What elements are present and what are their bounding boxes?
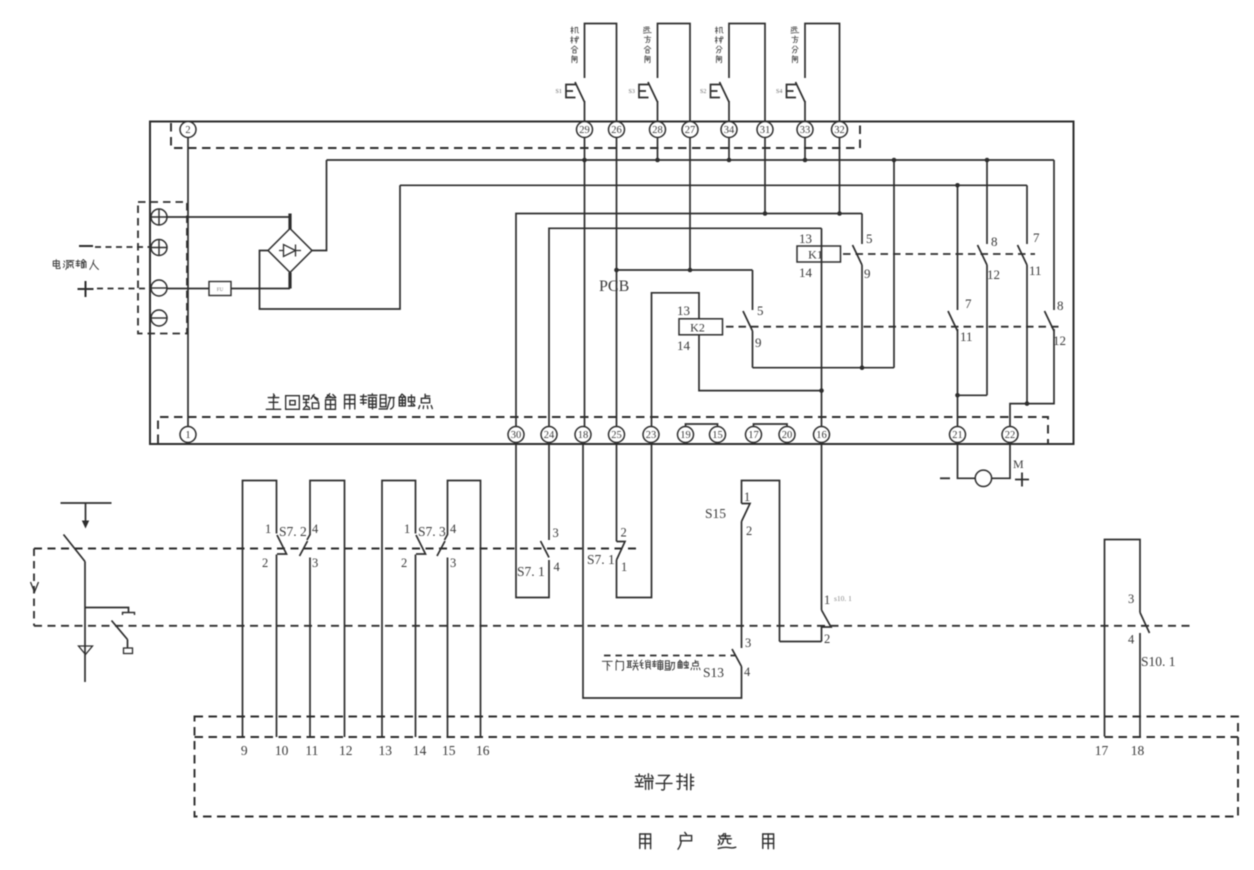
power terminal P2 <box>151 240 167 256</box>
junction bus160 x584.5 <box>582 158 587 163</box>
svg-text:PCB: PCB <box>599 278 629 295</box>
wire PB3 contact to terminal <box>728 101 730 122</box>
junction K1/K2 pin14 (821.5,390.6) <box>819 388 824 393</box>
push-button PB1 actuator <box>566 85 576 98</box>
relay coil K1 <box>797 246 841 262</box>
svg-text:16: 16 <box>476 743 490 758</box>
svg-text:S1: S1 <box>556 89 562 95</box>
label 主回路备用辅助触点 <box>266 394 432 410</box>
svg-text:3: 3 <box>553 526 559 540</box>
wire rectifier - output to bus <box>260 185 401 309</box>
svg-text:30: 30 <box>511 430 522 441</box>
junction bus270 x690 <box>688 268 693 273</box>
wire PB4 contact to terminal <box>804 101 806 122</box>
svg-text:25: 25 <box>611 430 622 441</box>
terminal 33 (top row) <box>797 122 813 138</box>
svg-text:9: 9 <box>241 743 248 758</box>
terminal 26 (top row) <box>609 122 625 138</box>
power terminal P1 <box>151 209 167 225</box>
power input dashed box <box>138 202 187 334</box>
auxiliary contact 7-11 arm (K1 row) <box>1018 245 1028 265</box>
svg-text:31: 31 <box>760 125 771 136</box>
svg-text:14: 14 <box>799 265 813 280</box>
wire rectifier + output to bus <box>312 160 327 251</box>
terminal strip inner dashed line <box>195 736 1239 738</box>
label 远方分闸 of PB4 <box>791 27 799 63</box>
switch S10.1 contact arm (3-4) <box>1140 613 1150 634</box>
svg-text:1: 1 <box>744 490 750 504</box>
label 远方合闸 of PB2 <box>644 27 652 63</box>
wire bus K2 drive y270 <box>617 269 753 271</box>
svg-text:14: 14 <box>677 338 691 353</box>
push-button PB1 contact arm <box>575 82 585 102</box>
terminal 24 (bottom row) <box>541 427 557 443</box>
svg-text:19: 19 <box>680 430 691 441</box>
svg-text:21: 21 <box>952 430 963 441</box>
rectifier AC lead bottom (bold) <box>288 273 291 289</box>
U-loop of S15 <box>742 481 780 642</box>
wire bar to arrow <box>85 503 87 521</box>
terminal 22 (bottom row) <box>1002 427 1018 443</box>
push-button unit PB1 frame wire <box>585 24 617 122</box>
label 端子排 <box>635 774 693 790</box>
svg-text:18: 18 <box>1131 743 1145 758</box>
svg-text:s10. 1: s10. 1 <box>834 594 852 603</box>
wire P1 to rectifier <box>167 216 290 218</box>
wire K2 switch 9 down to rail368 <box>752 331 754 368</box>
switch S7.3 pole A arm <box>416 535 426 554</box>
arrowhead (left assembly top) <box>82 521 89 529</box>
wire bus K1 coil feed y228 (from terminal 24) <box>549 228 822 426</box>
svg-text:3: 3 <box>450 556 456 570</box>
label 机械合闸 of PB1 <box>571 27 579 63</box>
wire PB1 contact to terminal <box>584 101 586 122</box>
U-loop terminals 9-10 <box>243 481 277 738</box>
power terminal P3 <box>151 280 167 296</box>
wire terminal 29 to terminal 18 (x584.5) <box>584 138 586 427</box>
svg-text:S7. 1: S7. 1 <box>517 564 545 579</box>
svg-text:27: 27 <box>685 125 696 136</box>
aux contact block (left assembly) <box>124 648 133 654</box>
U-loop terminals 15-16 <box>445 481 481 738</box>
junction x957.5 y395.3 <box>955 393 960 398</box>
switch S7.1 no.1 arm (3-4) <box>541 541 550 558</box>
svg-text:M: M <box>1013 457 1024 471</box>
wire contact 11 down (x1027) <box>1026 265 1028 404</box>
push-button PB4 actuator <box>787 85 797 98</box>
svg-text:11: 11 <box>305 743 318 758</box>
wire K2 coil top hook to terminal 23 <box>652 293 700 427</box>
bridge link terminals 19-15 <box>686 424 718 427</box>
svg-text:1: 1 <box>265 522 271 536</box>
push-button PB3 contact arm <box>720 82 730 102</box>
wire S7.2 pole A lower <box>276 555 278 738</box>
terminal 18 (bottom row) <box>575 427 591 443</box>
push-button unit PB4 frame wire <box>805 24 840 122</box>
terminal 23 (bottom row) <box>643 427 659 443</box>
svg-text:20: 20 <box>782 430 793 441</box>
wire terminal 16 down to s10.1 <box>821 443 823 611</box>
label 下门联锁辅助触点 <box>602 660 700 670</box>
minus symbol at motor <box>940 477 950 479</box>
wire S13 pin4 to terminal 18 <box>583 443 742 699</box>
svg-text:11: 11 <box>960 329 973 344</box>
svg-text:18: 18 <box>578 430 589 441</box>
junction bus160 x805 <box>803 158 808 163</box>
push-button unit PB2 frame wire <box>658 24 691 122</box>
svg-text:17: 17 <box>1095 743 1109 758</box>
inner dashed boundary top-left <box>171 123 860 148</box>
wire terminal 32 to bus213 <box>839 138 841 214</box>
push-button PB2 actuator <box>639 85 649 98</box>
svg-text:24: 24 <box>544 430 555 441</box>
svg-text:3: 3 <box>312 556 318 570</box>
terminal 27 (top row) <box>682 122 698 138</box>
svg-text:12: 12 <box>1053 333 1066 348</box>
wire bus160 down to contact 8 (x987) <box>986 160 988 244</box>
junction bus213 x765 <box>763 211 768 216</box>
svg-text:22: 22 <box>1005 430 1016 441</box>
terminal 31 (top row) <box>757 122 773 138</box>
terminal 29 (top row) <box>577 122 593 138</box>
svg-text:8: 8 <box>1057 298 1064 313</box>
motor M <box>975 470 991 486</box>
svg-text:S3: S3 <box>629 89 635 95</box>
junction bus270 x616.5 <box>614 268 619 273</box>
relay coil K2 <box>679 319 723 335</box>
svg-text:33: 33 <box>800 125 811 136</box>
switch S7.3 pole B arm <box>437 541 445 556</box>
svg-text:29: 29 <box>579 125 590 136</box>
junction bus160 x987 <box>985 158 990 163</box>
svg-text:1: 1 <box>404 522 410 536</box>
svg-text:S10. 1: S10. 1 <box>1141 654 1176 669</box>
svg-text:K1: K1 <box>808 248 823 262</box>
svg-text:2: 2 <box>746 524 752 538</box>
terminal 25 (bottom row) <box>609 427 625 443</box>
wire K1 coil vertical to terminal 16 <box>821 228 823 426</box>
dashed linkage bus upper y548.5 <box>34 548 637 550</box>
svg-text:S7. 2: S7. 2 <box>279 524 307 539</box>
svg-text:23: 23 <box>646 430 657 441</box>
push-button PB2 contact arm <box>648 82 658 102</box>
svg-text:34: 34 <box>724 125 735 136</box>
wire terminal 26 to terminal 25 (x616.5) <box>616 138 618 427</box>
svg-text:8: 8 <box>991 234 998 249</box>
svg-text:2: 2 <box>185 125 190 136</box>
wire bus160 to rail368 (x894) <box>893 160 895 368</box>
svg-text:S4: S4 <box>776 89 782 95</box>
junction rail368 x862 <box>860 365 865 370</box>
power terminal P4 <box>151 310 167 326</box>
wire aux branch (left assembly) <box>85 608 129 613</box>
U-loop terminals 11-12 <box>307 481 345 738</box>
label 机械分闸 of PB3 <box>715 27 723 63</box>
svg-text:S7. 3: S7. 3 <box>418 524 446 539</box>
dashed linkage bus lower y625.8 <box>34 625 1192 627</box>
wire bus185 down to contact 7 (x957.5) <box>957 185 959 310</box>
wire terminal 21 to motor <box>958 443 976 479</box>
wire terminal 31 to bus213 <box>764 138 766 214</box>
K2 start switch arm (5-9) <box>743 311 753 331</box>
dashed actuator line of K1 <box>843 253 1035 255</box>
svg-text:1: 1 <box>185 430 190 441</box>
junction bus185 x957.5 <box>955 183 960 188</box>
wire terminal 33 to bus160 <box>804 138 806 161</box>
svg-text:4: 4 <box>744 665 751 679</box>
earthing switch QS arm <box>64 535 86 562</box>
terminal 21 (bottom row) <box>950 427 966 443</box>
switch S7.2 pole B arm <box>300 541 308 556</box>
svg-text:16: 16 <box>816 430 827 441</box>
wire S7.3 pole A lower <box>415 555 417 738</box>
terminal 20 (bottom row) <box>779 427 795 443</box>
dashed linkage of S13 <box>604 655 735 657</box>
terminal strip dashed box <box>195 717 1239 817</box>
svg-text:2: 2 <box>262 556 268 570</box>
wire terminal 2 to terminal 1 <box>187 138 189 427</box>
wire terminal 25 down to contact <box>616 443 618 542</box>
dashed linkage vertical (left) <box>33 549 35 626</box>
wire S15 to s10.1 link <box>780 641 822 643</box>
svg-text:28: 28 <box>652 125 663 136</box>
svg-text:K2: K2 <box>690 320 705 334</box>
minus symbol of power input <box>79 245 93 247</box>
wire rail y368 (contacts 9 common) <box>753 367 895 369</box>
terminal 1 (bottom row) <box>180 427 196 443</box>
junction bus160 x657.5 <box>655 158 660 163</box>
wire link contact12 to terminal21 wire <box>958 394 988 396</box>
svg-text:S2: S2 <box>700 89 706 95</box>
contact s10.1 arm (1-2) <box>822 610 832 642</box>
junction x1027 y403.6 <box>1025 401 1030 406</box>
svg-text:9: 9 <box>864 266 871 281</box>
plus symbol of power input <box>78 281 94 297</box>
auxiliary contact 7-11 arm (K2 row) <box>948 311 958 331</box>
switch S15 contact arm (1-2) <box>742 504 751 522</box>
push-button unit PB3 frame wire <box>729 24 765 122</box>
svg-text:S13: S13 <box>703 665 724 680</box>
svg-text:26: 26 <box>611 125 622 136</box>
dashed link plus to terminal <box>97 288 150 290</box>
svg-text:17: 17 <box>748 430 759 441</box>
junction bus160 x729 <box>727 158 732 163</box>
dashed link minus to terminal <box>95 246 150 248</box>
plus symbol at motor <box>1015 473 1029 487</box>
ground symbol (left assembly) <box>79 646 93 655</box>
svg-text:9: 9 <box>755 335 762 350</box>
svg-text:12: 12 <box>987 267 1000 282</box>
wire bus negative rail y185 <box>400 184 1027 186</box>
switch S7.2 pole A arm <box>277 535 287 554</box>
svg-text:15: 15 <box>442 743 456 758</box>
svg-text:1: 1 <box>824 593 830 607</box>
svg-text:3: 3 <box>1128 592 1134 606</box>
wire terminal 24 down to contact <box>548 443 550 541</box>
fuse FU1 <box>209 282 231 296</box>
earth bus bar (left assembly) <box>61 502 112 504</box>
svg-text:11: 11 <box>1029 263 1042 278</box>
svg-text:1: 1 <box>621 560 627 574</box>
svg-text:2: 2 <box>401 556 407 570</box>
wire bus185 corner down to contact 7 (x1027) <box>1026 185 1028 244</box>
auxiliary contact 8-12 arm (K2 row) <box>1045 311 1055 331</box>
aux switch arm (left assembly) <box>112 621 128 640</box>
main enclosure box (solid) <box>150 122 1074 445</box>
svg-text:S15: S15 <box>705 506 726 521</box>
svg-text:FU: FU <box>217 288 224 293</box>
junction bus160 x894 <box>892 158 897 163</box>
terminal 32 (top row) <box>832 122 848 138</box>
svg-text:2: 2 <box>621 526 627 540</box>
terminal 34 (top row) <box>721 122 737 138</box>
svg-text:7: 7 <box>965 296 972 311</box>
wire contact 12 down to terminal 22 <box>1010 329 1054 427</box>
wire bus270 corner down to K2 switch 5 <box>752 270 754 310</box>
dashed actuator line of K2 <box>726 326 1063 328</box>
diode symbol inside rectifier <box>279 245 301 257</box>
svg-text:4: 4 <box>1128 633 1135 647</box>
terminal 30 (bottom row) <box>508 427 524 443</box>
wire fuse to rectifier <box>231 288 290 290</box>
wire terminal 28 to bus160 <box>657 138 659 161</box>
svg-text:5: 5 <box>757 303 764 318</box>
wire bus160 corner down to contact 8 (x1054) <box>1053 160 1055 310</box>
wire K2 pin14 to junction (x821.5) <box>699 335 822 391</box>
terminal 28 (top row) <box>650 122 666 138</box>
label 电源输入 <box>53 260 98 270</box>
rectifier AC lead top (bold) <box>288 214 291 230</box>
wire motor to terminal 22 <box>992 443 1010 479</box>
terminal 19 (bottom row) <box>678 427 694 443</box>
bridge rectifier D1 diamond <box>268 229 312 273</box>
svg-text:13: 13 <box>677 303 690 318</box>
svg-text:4: 4 <box>312 522 319 536</box>
U-loop of S10.1 <box>1105 540 1141 737</box>
wire K1 switch 9 down to rail368 <box>861 265 863 368</box>
svg-text:4: 4 <box>554 560 561 574</box>
K1 start switch arm (5-9) <box>853 245 863 265</box>
wire terminal 27 to bus270 <box>689 138 691 271</box>
wire terminal 34 to bus160 <box>728 138 730 161</box>
svg-text:2: 2 <box>824 632 830 646</box>
svg-text:7: 7 <box>1033 230 1040 245</box>
wire S15 pin2 down to S13 <box>741 522 743 649</box>
svg-text:32: 32 <box>834 125 845 136</box>
wire S7.3 pole B lower <box>447 558 449 738</box>
svg-text:13: 13 <box>378 743 392 758</box>
svg-text:10: 10 <box>275 743 289 758</box>
label 用户选用 <box>640 832 774 849</box>
wire terminal 30 down (S7.1 no.1) <box>516 443 549 598</box>
svg-text:13: 13 <box>799 231 812 246</box>
terminal 16 (bottom row) <box>814 427 830 443</box>
svg-text:14: 14 <box>413 743 427 758</box>
svg-text:S7. 1: S7. 1 <box>587 552 615 567</box>
wire P3 to fuse <box>167 288 209 290</box>
U-loop terminals 13-14 <box>382 481 416 738</box>
switch S13 contact arm (3-4) <box>732 649 742 667</box>
wire S7.2 pole B lower <box>309 558 311 738</box>
terminal 17 (bottom row) <box>746 427 762 443</box>
inner dashed boundary bottom <box>158 417 1048 443</box>
push-button PB3 actuator <box>711 85 721 98</box>
wire contact 11 down to terminal 21 <box>957 329 959 427</box>
svg-text:12: 12 <box>339 743 353 758</box>
wire bus213 corner down to K1 switch 5 <box>861 214 863 245</box>
static contact bar (left assembly) <box>123 613 135 616</box>
wire terminal 23 down (S7.1 no.2) <box>617 443 652 598</box>
arrowhead on linkage (left) <box>31 582 39 592</box>
aux switch lead (left assembly) <box>127 640 129 649</box>
auxiliary contact 8-12 arm (K1 row) <box>978 245 988 265</box>
terminal 15 (bottom row) <box>710 427 726 443</box>
wire contact 12 down (x987) <box>986 265 988 395</box>
terminal 2 (top row) <box>180 122 196 138</box>
wire bus positive rail y160 <box>327 159 1055 161</box>
bridge link terminals 17-20 <box>754 424 788 427</box>
junction bus213 x839.5 <box>837 211 842 216</box>
svg-text:15: 15 <box>712 430 723 441</box>
wire PB2 contact to terminal <box>657 101 659 122</box>
wire earthing switch down <box>84 562 86 683</box>
svg-text:4: 4 <box>450 522 457 536</box>
push-button PB4 contact arm <box>796 82 806 102</box>
switch S7.1 no.2 arm (2-1) <box>617 542 626 561</box>
wire S10.1 pin4 down to strip <box>1139 633 1141 737</box>
svg-text:5: 5 <box>866 231 873 246</box>
svg-text:3: 3 <box>745 636 751 650</box>
wire bus K1 drive y213 (from terminal 30) <box>516 214 862 427</box>
